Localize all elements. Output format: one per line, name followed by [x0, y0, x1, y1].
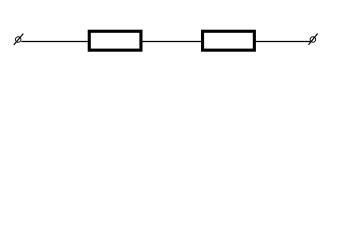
- resistor R2: [203, 31, 255, 50]
- wire from left terminal to R1: [21, 41, 88, 43]
- wire from R2 to right terminal: [255, 41, 310, 43]
- right terminal (slashed-circle port): [309, 34, 318, 45]
- left terminal (slashed-circle port): [14, 34, 24, 45]
- wire from R1 to R2: [142, 41, 202, 43]
- resistor R1: [89, 31, 141, 50]
